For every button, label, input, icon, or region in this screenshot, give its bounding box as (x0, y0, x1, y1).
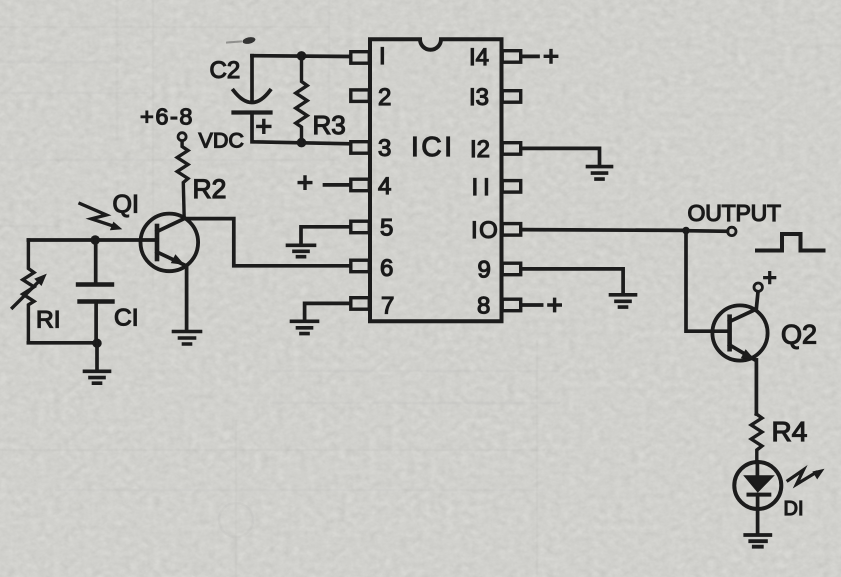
pulse waveform symbol (757, 234, 824, 251)
wire: pin 14 stub (521, 55, 538, 59)
pin 6 box (351, 260, 370, 272)
svg-text:C2: C2 (210, 57, 241, 84)
svg-text:4: 4 (378, 173, 391, 200)
capacitor C1 bottom lead (94, 302, 98, 343)
wire: R1 bottom to C1 bottom (28, 341, 97, 345)
wire: C2 top to pin 1 (252, 54, 350, 58)
transistor Q1 collector (157, 219, 184, 232)
pin 9 box (502, 263, 521, 275)
pin 1 box (351, 52, 370, 64)
LED D1 triangle (745, 476, 772, 491)
svg-text:R3: R3 (313, 110, 346, 140)
pin 13 box (502, 91, 521, 103)
pin 5 box (351, 221, 370, 233)
node: OUTPUT open terminal (728, 227, 736, 235)
svg-text:I: I (379, 43, 386, 70)
ground at pin 5 (288, 245, 315, 256)
pin 12 box (502, 143, 521, 155)
resistor R2 (177, 141, 188, 219)
svg-text:2: 2 (378, 84, 391, 111)
LED D1 circle (734, 462, 781, 509)
svg-text:II: II (472, 174, 495, 201)
svg-text:I2: I2 (470, 136, 490, 163)
ground below D1 (745, 535, 770, 547)
resistor R4 (751, 414, 762, 462)
wire: junction to ground (95, 343, 99, 370)
wire: junction to output terminal (686, 229, 728, 233)
node: junction dot R3 bottom (297, 138, 307, 148)
capacitor C2 curved plate (234, 91, 271, 103)
pin 10 box (502, 224, 521, 236)
svg-text:8: 8 (477, 293, 490, 320)
LED D1 cathode lead to ground (756, 495, 760, 533)
svg-text:5: 5 (380, 215, 393, 242)
node: junction dot bottom (92, 339, 101, 348)
svg-text:CI: CI (114, 305, 139, 332)
wire: pin 12 to ground (521, 148, 600, 164)
pin 8 box (502, 299, 521, 311)
IC IC1 body (14-pin DIP outline with notch) (370, 39, 502, 321)
ground below C1 (85, 371, 110, 383)
D1 light arrowhead (812, 469, 824, 480)
svg-text:R2: R2 (193, 174, 227, 204)
capacitor C1 top lead (94, 240, 98, 285)
transistor Q1 emitter arrowhead (171, 254, 185, 265)
wire: Q1 collector node to pin 6 (184, 219, 350, 266)
pin 3 box (351, 142, 370, 154)
svg-text:6: 6 (380, 255, 393, 282)
transistor Q2 emitter (730, 345, 755, 360)
transistor Q1 emitter (157, 252, 186, 266)
wire: Q2 emitter down to R4 (755, 360, 759, 414)
ground at pin 7 (292, 321, 318, 333)
svg-text:OUTPUT: OUTPUT (688, 200, 782, 226)
resistor R3 (296, 56, 307, 142)
node: junction dot R3 top (297, 51, 307, 61)
wire: pin 8 stub (521, 303, 542, 307)
transistor Q2 collector (730, 292, 758, 322)
Q1 light arrowhead (110, 222, 122, 231)
svg-text:+6-8: +6-8 (140, 104, 194, 130)
capacitor C1 top plate (78, 282, 112, 286)
svg-text:ICI: ICI (411, 131, 455, 162)
wire: Q1 base wire (28, 238, 157, 242)
wire: C2 bottom to pin 3 (252, 113, 350, 144)
node: Q2 collector open terminal (754, 283, 762, 291)
wire: Q1 emitter down (185, 266, 189, 330)
Q1 light arrow (80, 204, 114, 227)
svg-text:VDC: VDC (199, 129, 244, 153)
pin 14 plus symbol (545, 51, 556, 62)
pin 11 box (502, 181, 521, 193)
pin 2 box (351, 90, 370, 102)
capacitor C1 bottom plate (80, 299, 113, 303)
transistor Q2 emitter arrowhead (741, 349, 755, 359)
wire: junction down to Q2 base (686, 231, 730, 332)
transistor Q1 base bar (155, 226, 160, 259)
svg-text:9: 9 (478, 257, 491, 284)
resistor R1 (variable) leads and zigzag (23, 240, 34, 342)
node: output junction dot (682, 227, 690, 235)
svg-text:I4: I4 (469, 44, 489, 71)
svg-text:I3: I3 (469, 84, 489, 111)
wire: pin 7 to ground (305, 303, 350, 319)
transistor Q2 base bar (727, 317, 732, 350)
R1 arrowhead (34, 274, 47, 286)
svg-text:IO: IO (471, 217, 499, 244)
pin 4 plus symbol (299, 177, 311, 188)
D1 light arrow (788, 470, 816, 485)
wire: pin 10 to output junction (521, 228, 684, 232)
ground below Q1 emitter (174, 332, 201, 345)
R1 arrow (12, 282, 38, 308)
svg-text:RI: RI (36, 307, 61, 334)
svg-text:7: 7 (381, 293, 394, 320)
wire: pin 9 to ground (521, 269, 623, 293)
pin 4 box (351, 179, 370, 191)
pin 7 box (351, 298, 370, 310)
ink smudge (242, 36, 256, 45)
transistor Q1 circle (141, 214, 199, 272)
capacitor C2 straight plate (234, 110, 271, 114)
wire: pin 5 to ground (301, 227, 350, 244)
Q2 supply plus symbol (765, 273, 775, 283)
svg-text:3: 3 (378, 135, 391, 162)
LED D1 anode lead through circle (756, 462, 760, 476)
transistor Q2 circle (712, 305, 767, 360)
svg-text:QI: QI (113, 190, 139, 218)
capacitor C2 polarity plus (258, 121, 270, 133)
pin 8 plus symbol (549, 299, 560, 310)
node: VDC open terminal (178, 133, 186, 141)
svg-text:DI: DI (784, 498, 804, 520)
capacitor C2 lead from top wire (250, 56, 254, 101)
ground at pin 9 (611, 295, 636, 307)
svg-text:Q2: Q2 (781, 319, 817, 349)
pin 14 box (502, 51, 521, 63)
wire: pin 4 stub (325, 183, 351, 187)
ground at pin 12 (588, 167, 612, 180)
node: junction dot base/C1 (91, 235, 100, 244)
LED D1 cathode bar (749, 493, 770, 497)
svg-text:R4: R4 (772, 416, 808, 447)
